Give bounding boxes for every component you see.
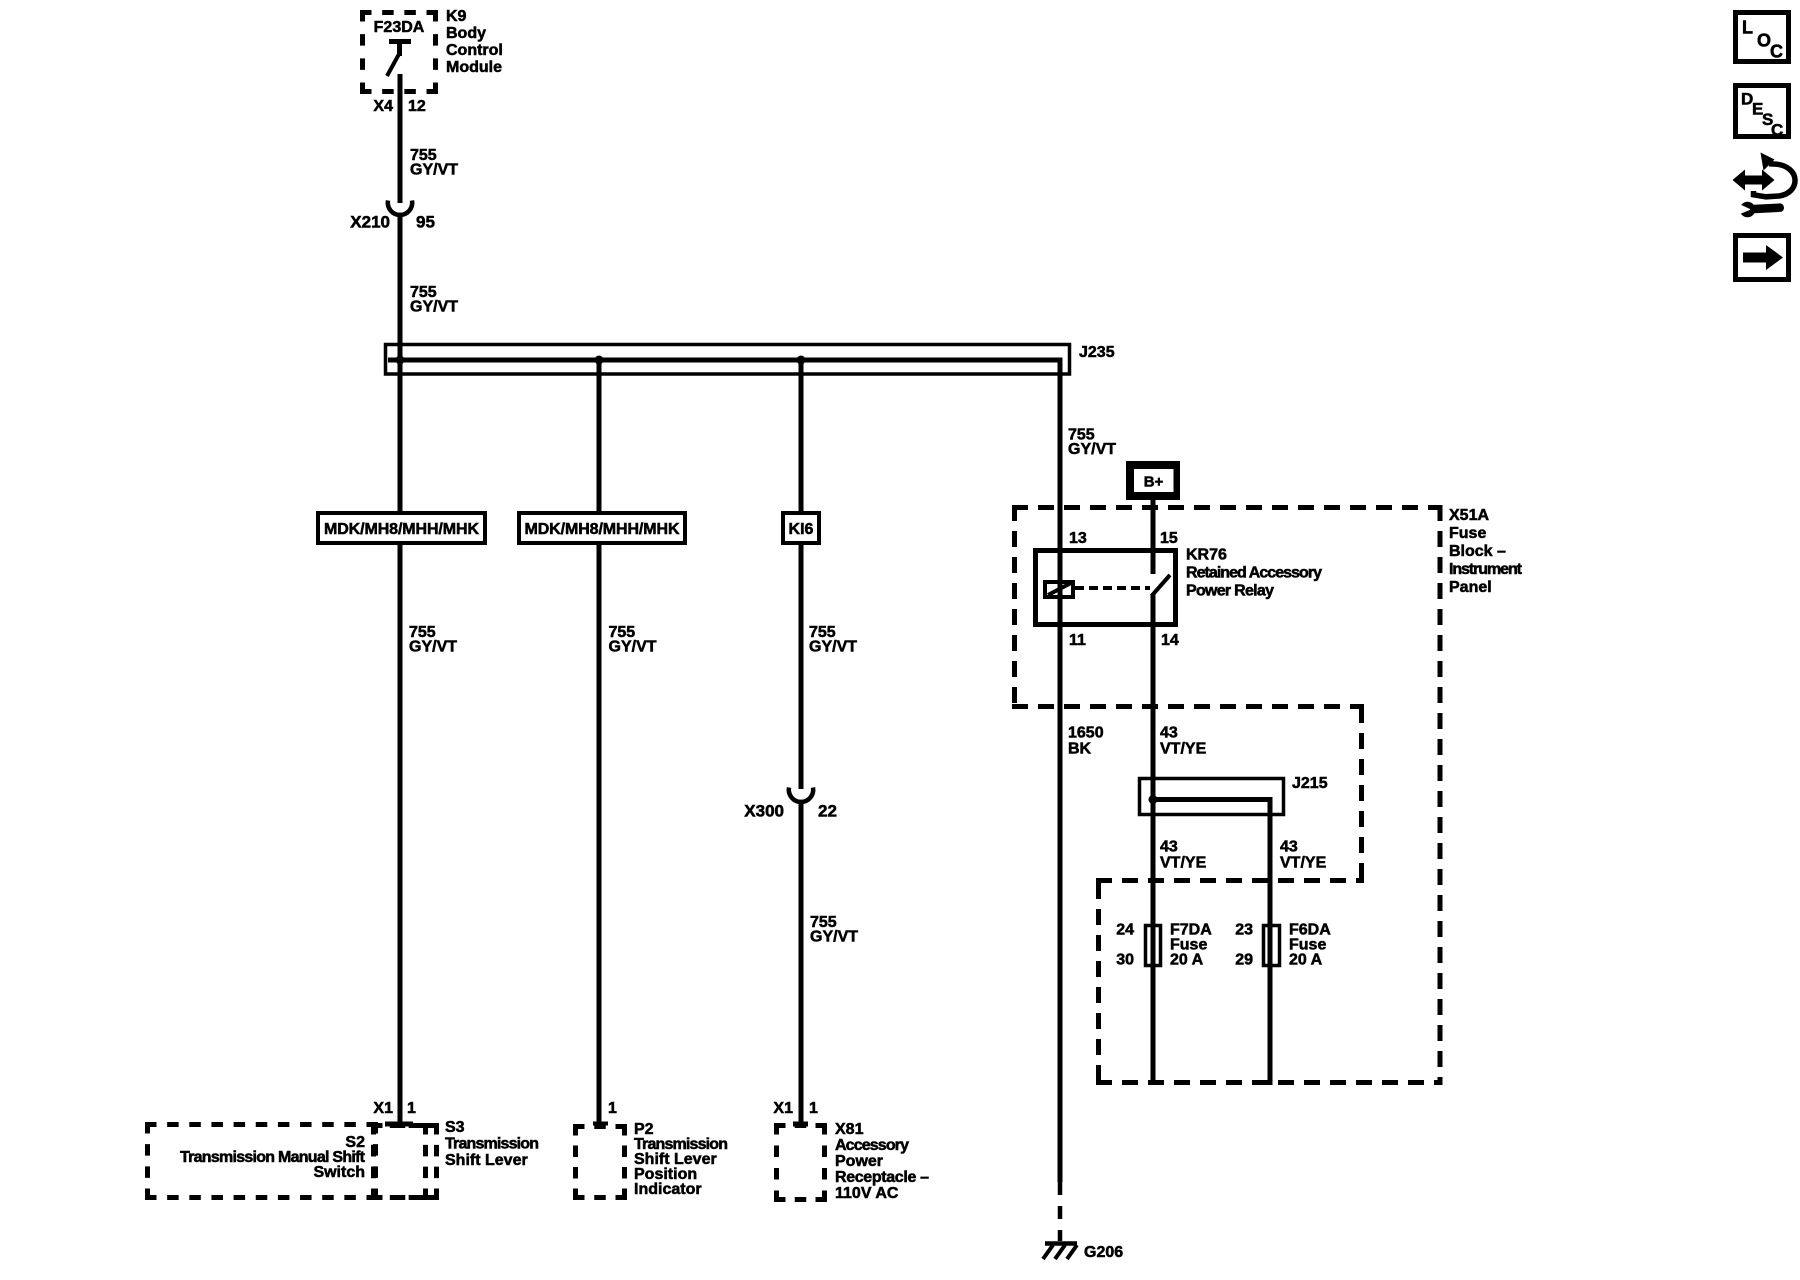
relay KR76 outline box (1036, 551, 1176, 625)
fuse block X51A dashed outline bottom edge shared with J215 box (1012, 704, 1364, 709)
svg-text:MDK/MH8/MHH/MHK: MDK/MH8/MHH/MHK (525, 521, 680, 538)
svg-text:30: 30 (1116, 952, 1134, 969)
svg-text:13: 13 (1069, 530, 1087, 547)
fuse F6DA 20 A element box (1264, 926, 1280, 966)
svg-text:29: 29 (1235, 952, 1253, 969)
body control module K9 dashed outline with fuse F23DA (360, 10, 438, 94)
svg-text:C: C (1771, 121, 1783, 140)
svg-text:755GY/VT: 755GY/VT (410, 147, 458, 179)
svg-text:MDK/MH8/MHH/MHK: MDK/MH8/MHH/MHK (324, 521, 479, 538)
svg-text:F6DAFuse20 A: F6DAFuse20 A (1289, 922, 1331, 969)
svg-text:15: 15 (1160, 530, 1178, 547)
fuse region dashed bottom edge (1096, 1080, 1443, 1085)
sidebar troubleshooting icon curved arrowhead (1761, 153, 1775, 171)
terminal tick at X81 pin 1 (793, 1122, 808, 1127)
wire 755 GY/VT below X300 (799, 800, 804, 1123)
svg-text:L: L (1742, 18, 1753, 38)
svg-text:43VT/YE: 43VT/YE (1160, 725, 1207, 758)
harness option box MDK/MH8/MHH/MHK middle (519, 513, 685, 543)
svg-text:P2TransmissionShift LeverPosit: P2TransmissionShift LeverPositionIndicat… (634, 1121, 728, 1198)
svg-text:C: C (1770, 42, 1783, 62)
svg-text:1: 1 (608, 1100, 617, 1117)
svg-text:X1: X1 (373, 1100, 393, 1117)
sidebar forward arrow button box (1736, 236, 1789, 280)
svg-text:22: 22 (818, 802, 837, 821)
svg-text:755GY/VT: 755GY/VT (609, 624, 657, 656)
fuse F7DA 20 A element box (1146, 926, 1161, 966)
J215 region dashed right edge (1359, 707, 1364, 883)
node junction dot on J235 bus at wire A (396, 356, 405, 365)
fuse block X51A dashed outline top edge (1012, 505, 1443, 510)
splice pack J235 internal bus bar with drop to fuse block (388, 360, 1060, 1182)
svg-text:X300: X300 (744, 802, 784, 821)
sidebar troubleshooting icon double arrow (1733, 170, 1775, 191)
svg-text:J215: J215 (1292, 775, 1328, 792)
svg-text:14: 14 (1161, 632, 1179, 649)
fuse region dashed left edge (1096, 883, 1101, 1085)
node junction dot in J215 (1149, 795, 1158, 804)
svg-text:95: 95 (416, 213, 435, 232)
svg-text:KR76Retained AccessoryPower Re: KR76Retained AccessoryPower Relay (1186, 547, 1322, 600)
svg-text:755GY/VT: 755GY/VT (809, 624, 857, 656)
connector X300 pin 22 inline connector symbol (789, 788, 813, 802)
svg-text:11: 11 (1069, 632, 1086, 649)
svg-text:X4: X4 (373, 98, 393, 115)
svg-text:S3TransmissionShift Lever: S3TransmissionShift Lever (445, 1119, 539, 1169)
wire 755 GY/VT branch to P2 indicator (597, 360, 602, 1123)
svg-text:X81AccessoryPowerReceptacle –1: X81AccessoryPowerReceptacle –110V AC (835, 1121, 929, 1202)
svg-text:B+: B+ (1144, 474, 1164, 491)
svg-text:755GY/VT: 755GY/VT (409, 624, 457, 656)
node junction dot on J235 bus at wire C (797, 356, 806, 365)
wire 755 GY/VT branch through X300 to X81 receptacle (799, 360, 804, 789)
connector S3 dashed terminal box outer (371, 1123, 439, 1200)
sidebar troubleshooting icon curved arrow outline (1754, 164, 1796, 197)
splice J215 outline box (1140, 779, 1284, 815)
svg-text:24: 24 (1116, 922, 1134, 939)
relay KR76 switch blade contact (1152, 575, 1171, 596)
wire 43 VT/YE from relay pin 14 through J215 to fuse F7DA (1151, 594, 1156, 1085)
switch S2 dashed outline transmission manual shift switch (145, 1122, 378, 1200)
svg-text:755GY/VT: 755GY/VT (1068, 427, 1116, 459)
svg-text:O: O (1757, 31, 1771, 51)
svg-text:F23DA: F23DA (374, 19, 425, 36)
svg-text:K9BodyControlModule: K9BodyControlModule (446, 8, 503, 76)
svg-text:G206: G206 (1084, 1244, 1123, 1261)
wire 755 GY/VT from F23DA fuse to connector X210 (398, 74, 403, 203)
relay KR76 actuation dashed link (1075, 586, 1150, 590)
fuse F23DA element symbol inside BCM (387, 42, 411, 77)
svg-text:23: 23 (1235, 922, 1253, 939)
battery positive B+ terminal symbol (1126, 461, 1180, 500)
terminal tick at S3 pin 1 (385, 1122, 413, 1127)
fuse block X51A dashed outline left edge (1012, 505, 1017, 709)
relay KR76 coil (1045, 582, 1073, 597)
terminal tick at P2 pin 1 (593, 1122, 608, 1126)
wire 755 GY/VT from X210 down through J235 to switch S3 terminal (398, 213, 403, 1123)
sidebar DESC button box (1736, 86, 1789, 137)
svg-text:1650BK: 1650BK (1068, 725, 1104, 758)
connector X81 dashed terminal box (774, 1123, 827, 1202)
fuse block X51A dashed outline right edge full height (1438, 505, 1443, 1085)
harness option box MDK/MH8/MHH/MHK left (318, 513, 485, 543)
J215 region dashed bottom edge (1096, 878, 1364, 883)
svg-text:43VT/YE: 43VT/YE (1160, 839, 1207, 872)
connector P2 dashed terminal box (573, 1124, 627, 1200)
ground G206 chassis ground symbol (1043, 1244, 1077, 1260)
svg-text:43VT/YE: 43VT/YE (1280, 839, 1327, 872)
sidebar LOC button box (1736, 13, 1789, 62)
svg-text:X210: X210 (350, 213, 390, 232)
svg-text:KI6: KI6 (789, 521, 814, 538)
svg-text:X1: X1 (773, 1100, 793, 1117)
wire 1650 BK dashed segment to ground G206 (1058, 1182, 1063, 1241)
svg-text:S2Transmission Manual ShiftSwi: S2Transmission Manual ShiftSwitch (180, 1134, 366, 1181)
svg-text:1: 1 (809, 1100, 818, 1117)
node junction dot on J235 bus at wire B (595, 356, 604, 365)
wire B+ feed from battery terminal to relay pin 15 (1151, 500, 1156, 574)
svg-text:755GY/VT: 755GY/VT (810, 914, 858, 946)
svg-text:J235: J235 (1079, 344, 1115, 361)
svg-text:X51AFuseBlock –InstrumentPanel: X51AFuseBlock –InstrumentPanel (1449, 507, 1523, 596)
connector S3 dashed terminal box inner (371, 1123, 428, 1200)
splice pack J235 outline box (386, 345, 1070, 375)
svg-text:12: 12 (408, 98, 426, 115)
harness option box KI6 (783, 513, 819, 543)
svg-text:755GY/VT: 755GY/VT (410, 284, 458, 316)
svg-text:1: 1 (407, 1100, 416, 1117)
splice J215 internal bus with drop to fuse F6DA (1153, 800, 1270, 1086)
connector X210 pin 95 inline connector symbol (388, 201, 412, 215)
svg-text:F7DAFuse20 A: F7DAFuse20 A (1170, 922, 1212, 969)
sidebar troubleshooting icon wrench (1735, 202, 1784, 218)
